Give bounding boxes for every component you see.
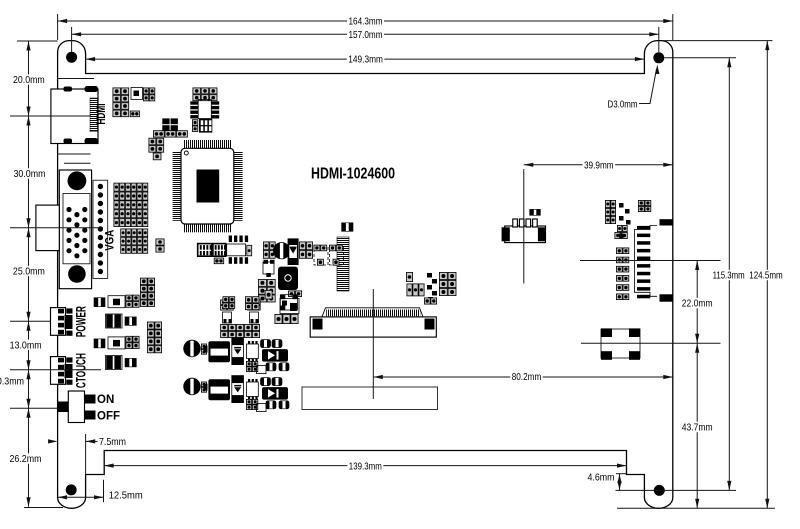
- svg-text:ON: ON: [97, 394, 114, 406]
- left chain extension lines: [10, 41, 103, 508]
- dimension line 164.3mm: [58, 19, 673, 23]
- dimension 124.5mm: [765, 41, 769, 509]
- pad array F4: [439, 272, 456, 295]
- extension line bottom step 4.6: [611, 473, 627, 475]
- dimension 115.3mm: [727, 58, 731, 491]
- HDMI shell front edge line: [58, 78, 94, 80]
- label 22.0mm: [680, 298, 714, 310]
- SOT-23 Q3: [263, 260, 275, 277]
- label 139.3mm: [347, 461, 383, 473]
- SOP8 IC U3: [190, 100, 219, 119]
- label 80.2mm: [510, 371, 543, 383]
- touch FPC connector CN3: [502, 219, 546, 243]
- pad array G3: [638, 200, 650, 211]
- svg-text:VGA: VGA: [105, 230, 117, 251]
- VGA connector J2 body: [36, 170, 92, 289]
- dimension 39.9mm: [524, 163, 673, 167]
- pad array C1 upper: [114, 183, 148, 227]
- pad F1: [406, 272, 412, 281]
- fiducial mark: [162, 118, 178, 131]
- left dimension chain line: [28, 41, 30, 507]
- VGA through-hole pin row: [93, 180, 108, 278]
- svg-text:30.0mm: 30.0mm: [14, 168, 46, 180]
- resistor: [125, 317, 136, 326]
- power switch SW1: [58, 391, 96, 423]
- left chain arrowheads: [26, 41, 30, 507]
- label 43.7mm: [680, 422, 714, 434]
- small IC U2: [131, 88, 143, 100]
- pad array A3: [143, 88, 154, 101]
- dimension chain 22.0/43.7mm: [695, 261, 699, 509]
- leader D3.0mm: [638, 65, 660, 104]
- svg-text:22.0mm: 22.0mm: [682, 298, 713, 310]
- extension line tab top right: [662, 40, 773, 42]
- svg-text:4.6mm: 4.6mm: [588, 472, 615, 484]
- pad array D4: [258, 279, 275, 302]
- jumper pair G6-3: [616, 266, 628, 272]
- label 20.0mm: [12, 74, 47, 86]
- label 13.0mm: [8, 339, 43, 351]
- jumper pair G6-5: [616, 285, 628, 291]
- pad pair G4: [617, 225, 627, 231]
- label 157.0mm: [347, 29, 384, 41]
- label 124.5mm: [748, 270, 785, 282]
- extension line 7.5mm at tab edge: [85, 434, 87, 474]
- label 25.0mm: [11, 266, 46, 278]
- svg-text:7.5mm: 7.5mm: [99, 436, 126, 448]
- diode D2: [288, 238, 299, 265]
- touch connector centerline: [523, 169, 525, 283]
- svg-text:26.2mm: 26.2mm: [10, 453, 42, 465]
- LCD opening rectangle: [302, 387, 438, 410]
- pad pair D9: [223, 297, 235, 309]
- svg-text:13.0mm: 13.0mm: [10, 339, 42, 351]
- pad pair C2: [156, 239, 164, 252]
- label 26.2mm: [8, 453, 43, 465]
- svg-text:OFF: OFF: [97, 411, 120, 423]
- pad U8b: [214, 258, 224, 264]
- pad array B1: [193, 88, 217, 101]
- jumper pair G6-2: [616, 257, 628, 263]
- dimension 4.6mm: [617, 474, 621, 491]
- extension line board bottom: [617, 507, 775, 509]
- IC U5 footprint: [280, 299, 299, 314]
- pad pair D10: [245, 297, 259, 310]
- label 149.3mm: [347, 54, 385, 66]
- label 12.5mm: [107, 490, 144, 502]
- power group 2: [184, 376, 289, 412]
- pad array D3: [299, 242, 312, 258]
- VGA pin holes: [66, 207, 87, 259]
- mounting hole bottom-left D3.0: [66, 484, 77, 495]
- svg-text:POWER: POWER: [74, 306, 89, 337]
- part beside CTOUCH: [108, 337, 125, 349]
- label 10.3mm: [0, 376, 26, 388]
- extension line 12.5mm: [103, 480, 105, 503]
- LVDS connector CN2: [634, 219, 672, 301]
- pad strip D8: [221, 324, 260, 337]
- CTOUCH micro-USB connector J4: [51, 357, 73, 385]
- SOT-23 Q5: [248, 300, 261, 323]
- small parts F3: [427, 273, 437, 302]
- small parts G2: [619, 203, 631, 225]
- pad row F2: [407, 284, 424, 296]
- label 4.6mm: [586, 472, 616, 484]
- pad U8r: [247, 245, 252, 256]
- pad A1b: [130, 111, 139, 117]
- crystal/component X1: [601, 328, 640, 359]
- svg-text:115.3mm: 115.3mm: [713, 270, 745, 282]
- pad pair B2: [192, 120, 197, 132]
- svg-text:164.3mm: 164.3mm: [349, 16, 383, 28]
- socket U4: [199, 119, 212, 133]
- label 115.3mm: [711, 270, 746, 282]
- mounting hole top-right D3.0: [653, 52, 664, 63]
- transistor Q1: [314, 245, 328, 265]
- mounting hole bottom-right D3.0: [654, 485, 665, 496]
- jumper pair G6-4: [616, 276, 628, 282]
- svg-text:HDMI: HDMI: [96, 104, 108, 125]
- transistor Q2: [330, 245, 344, 265]
- HDMI connector J1: [51, 86, 98, 144]
- svg-text:157.0mm: 157.0mm: [349, 29, 383, 41]
- pad array E1: [140, 278, 154, 306]
- svg-text:124.5mm: 124.5mm: [749, 270, 783, 282]
- jumper pair G6-1: [616, 248, 628, 254]
- POWER micro-USB connector J3: [51, 308, 73, 336]
- pad array C1 lower: [121, 229, 148, 253]
- socket U6: [198, 244, 212, 257]
- electrolytic capacitor C2: [273, 242, 289, 259]
- extension line left board edge (top): [57, 14, 59, 40]
- label 39.9mm: [583, 160, 616, 172]
- FFC centerline: [372, 289, 374, 399]
- extension line lvds center: [580, 260, 721, 262]
- label 30.0mm: [12, 168, 47, 180]
- dimension line 12.5mm: [58, 495, 104, 499]
- extension line bottom holes: [616, 489, 737, 491]
- part beside POWER: [108, 296, 125, 308]
- capacitor beside POWER: [94, 298, 105, 307]
- label 7.5mm: [98, 436, 128, 448]
- pad pair F5: [424, 298, 436, 304]
- pad pair D5: [288, 291, 301, 297]
- extension line right hole center: [658, 27, 660, 52]
- dimension line 157.0mm: [72, 32, 659, 36]
- svg-text:80.2mm: 80.2mm: [512, 371, 542, 383]
- pad array E2: [147, 322, 161, 353]
- resistor above touch connector: [530, 209, 541, 215]
- pad row B3: [153, 131, 187, 137]
- socket U7: [213, 244, 226, 257]
- dimension 80.2mm: [373, 375, 673, 379]
- resistor: [125, 358, 136, 367]
- pad row D6: [275, 314, 298, 323]
- tantalum capacitor C3: [278, 267, 298, 290]
- svg-text:HDMI-1024600: HDMI-1024600: [311, 166, 395, 183]
- svg-text:43.7mm: 43.7mm: [682, 422, 713, 434]
- svg-text:20.0mm: 20.0mm: [13, 74, 45, 86]
- pads beside POWER: [126, 295, 139, 307]
- pad array G1: [605, 200, 615, 223]
- LCD FFC connector CN1: [310, 308, 436, 337]
- extension line right board edge (top): [672, 14, 674, 40]
- svg-text:D3.0mm: D3.0mm: [608, 98, 638, 110]
- svg-text:10.3mm: 10.3mm: [0, 376, 24, 388]
- extension line crystal center: [581, 342, 721, 344]
- capacitor beside CTOUCH: [94, 339, 105, 348]
- tantalum cap at x106 y356.0: [106, 356, 123, 370]
- dimension 7.5mm outside arrows: [48, 439, 98, 443]
- svg-text:25.0mm: 25.0mm: [13, 266, 45, 278]
- SOIC-8 U8 horizontal: [227, 236, 248, 264]
- svg-text:139.3mm: 139.3mm: [349, 461, 382, 473]
- pad array A7: [149, 138, 164, 152]
- tantalum cap at x106 y314.5: [106, 314, 123, 328]
- extension line hole top right: [665, 57, 737, 59]
- svg-text:CTOUCH: CTOUCH: [74, 353, 89, 388]
- resistor R2: [342, 223, 353, 232]
- part G5: [615, 232, 627, 238]
- svg-text:39.9mm: 39.9mm: [584, 160, 614, 172]
- main IC U1 (QFP): [173, 140, 243, 232]
- extension line left hole center: [71, 27, 73, 52]
- label 164.3mm: [347, 16, 384, 28]
- dimension line 139.3mm: [104, 464, 626, 468]
- pad array D1: [263, 242, 275, 258]
- jumper pair G6-6: [616, 294, 628, 300]
- silkscreen lines below HDMI: [58, 154, 91, 163]
- pad array A1: [113, 88, 129, 117]
- mounting hole top-left D3.0: [66, 52, 77, 63]
- pin header strip: [337, 237, 349, 291]
- pads beside CTOUCH: [126, 336, 139, 348]
- SOT-23 Q4: [221, 300, 234, 323]
- svg-text:149.3mm: 149.3mm: [348, 54, 383, 66]
- pad A7b: [153, 153, 161, 160]
- svg-text:12.5mm: 12.5mm: [109, 490, 143, 502]
- power group 1: [184, 338, 289, 374]
- pad D7: [265, 290, 272, 299]
- crystal X2: [280, 295, 297, 310]
- label D3.0mm: [606, 98, 639, 110]
- dimension line 149.3mm: [86, 57, 645, 61]
- PCB board outline with corner mounting tabs: [58, 41, 673, 509]
